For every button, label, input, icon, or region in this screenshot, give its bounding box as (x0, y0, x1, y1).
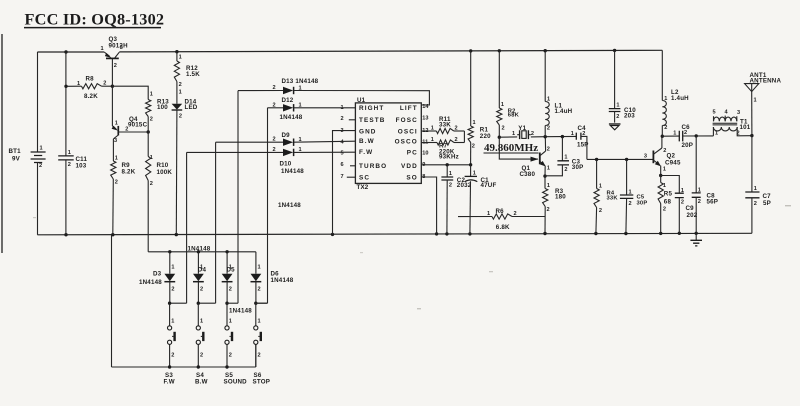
resistor R2 (498, 51, 500, 108)
svg-text:C7: C7 (763, 193, 772, 200)
capacitor C3 (561, 137, 563, 161)
wire (333, 131, 356, 235)
diode D5 (226, 252, 228, 274)
wire (227, 302, 238, 304)
svg-text:6.8K: 6.8K (496, 224, 510, 231)
capacitor C8 (695, 136, 697, 193)
svg-text:D5: D5 (227, 266, 236, 273)
svg-text:2: 2 (114, 63, 117, 69)
svg-text:1: 1 (547, 165, 550, 171)
svg-text:FOSC: FOSC (396, 117, 418, 124)
svg-text:3: 3 (644, 153, 647, 159)
node (168, 365, 171, 368)
resistor R12 (176, 52, 178, 61)
svg-text:203: 203 (624, 113, 635, 120)
svg-text:2: 2 (229, 353, 232, 359)
svg-text:B.W: B.W (195, 378, 208, 385)
svg-text:2: 2 (179, 82, 182, 88)
svg-text:1: 1 (101, 46, 104, 52)
svg-text:C380: C380 (520, 171, 536, 178)
capacitor C2 (446, 165, 448, 177)
svg-text:30P: 30P (572, 164, 584, 171)
svg-text:OSCO: OSCO (395, 139, 418, 146)
svg-text:1: 1 (115, 155, 118, 161)
svg-text:2: 2 (258, 287, 261, 293)
svg-text:R6: R6 (496, 208, 505, 215)
svg-text:1: 1 (179, 55, 182, 61)
wire (267, 108, 269, 303)
svg-text:3: 3 (120, 45, 123, 51)
diode D6 (255, 252, 257, 274)
capacitor C5 (626, 159, 628, 195)
ic U1 TX2 (355, 103, 421, 183)
svg-text:C945: C945 (665, 160, 681, 167)
svg-text:VDD: VDD (401, 163, 418, 170)
wire (499, 137, 538, 159)
resistor R11 (421, 130, 436, 132)
svg-text:1: 1 (179, 90, 182, 96)
node (168, 250, 171, 253)
svg-text:2: 2 (68, 162, 71, 168)
svg-text:93KHz: 93KHz (439, 154, 459, 161)
svg-text:Q2: Q2 (667, 153, 676, 160)
svg-text:2: 2 (103, 81, 106, 87)
svg-text:1: 1 (487, 211, 490, 217)
svg-text:2: 2 (229, 287, 232, 293)
diode D4 (197, 252, 199, 274)
node (544, 135, 547, 138)
wire (421, 177, 436, 234)
node (750, 134, 753, 137)
svg-text:1: 1 (68, 150, 71, 156)
svg-text:BT1: BT1 (9, 148, 22, 155)
svg-text:F.W: F.W (164, 378, 175, 385)
node (64, 85, 67, 88)
svg-text:2: 2 (455, 125, 458, 131)
node (498, 136, 501, 139)
svg-text:2: 2 (502, 126, 505, 132)
svg-text:1: 1 (473, 120, 476, 126)
svg-text:1: 1 (547, 183, 550, 189)
svg-text:1: 1 (564, 155, 567, 161)
svg-text:1: 1 (40, 146, 43, 152)
wire (148, 251, 256, 253)
svg-text:2: 2 (449, 182, 452, 188)
svg-text:100K: 100K (157, 169, 173, 176)
svg-text:1N4148: 1N4148 (281, 168, 304, 175)
wire (119, 50, 662, 52)
svg-text:33K: 33K (439, 121, 451, 128)
svg-text:D12: D12 (282, 97, 294, 104)
wire (37, 51, 104, 53)
svg-text:2: 2 (171, 353, 174, 359)
svg-text:20P: 20P (682, 142, 694, 149)
svg-text:RIGHT: RIGHT (359, 105, 384, 112)
wire (350, 165, 355, 167)
battery BT1 (37, 52, 39, 152)
resistor R1 (470, 51, 472, 126)
svg-text:1: 1 (754, 186, 757, 192)
svg-text:GND: GND (359, 128, 377, 135)
svg-text:SC: SC (359, 174, 370, 181)
svg-text:180: 180 (555, 193, 566, 200)
svg-text:68: 68 (664, 198, 672, 205)
svg-text:101: 101 (740, 124, 751, 131)
svg-text:56P: 56P (707, 199, 719, 206)
capacitor C6 (662, 135, 679, 137)
transistor Q1 (539, 153, 541, 165)
svg-text:R5: R5 (664, 190, 673, 197)
switch S5 (226, 303, 228, 325)
svg-text:47UF: 47UF (481, 182, 497, 189)
svg-text:TURBO: TURBO (359, 163, 387, 170)
svg-text:1: 1 (715, 130, 718, 136)
svg-text:1: 1 (473, 171, 476, 177)
svg-text:8.2K: 8.2K (122, 169, 136, 176)
svg-text:1N4148: 1N4148 (139, 279, 162, 286)
svg-text:100: 100 (157, 104, 168, 111)
svg-text:2: 2 (629, 201, 632, 207)
node (64, 50, 67, 53)
wire (198, 302, 215, 304)
svg-text:1: 1 (449, 171, 452, 177)
node (695, 134, 698, 137)
svg-text:STOP: STOP (253, 378, 271, 385)
svg-text:D3: D3 (153, 271, 162, 278)
svg-text:2: 2 (664, 125, 667, 131)
wire (463, 131, 465, 143)
svg-text:5: 5 (713, 110, 716, 116)
resistor R4 (596, 159, 598, 188)
svg-text:2: 2 (455, 137, 458, 143)
switch S3 (169, 303, 171, 325)
svg-text:FCC ID: OQ8-1302: FCC ID: OQ8-1302 (25, 10, 165, 29)
svg-text:1: 1 (663, 166, 666, 172)
svg-text:2: 2 (616, 114, 619, 120)
resistor R13 (112, 86, 148, 99)
svg-text:1: 1 (115, 121, 118, 127)
svg-text:1: 1 (229, 319, 232, 325)
svg-text:F.W: F.W (359, 149, 373, 156)
svg-text:2: 2 (472, 144, 475, 150)
wire (661, 176, 680, 194)
inductor L2 (661, 50, 663, 100)
svg-text:1: 1 (171, 264, 174, 270)
capacitor C11 (65, 52, 67, 156)
svg-text:13: 13 (422, 116, 428, 122)
svg-text:1: 1 (571, 131, 574, 137)
ground (695, 233, 697, 240)
svg-text:2: 2 (698, 199, 701, 205)
node (785, 205, 791, 206)
svg-text:1: 1 (200, 319, 203, 325)
diode D14 LED (176, 82, 178, 104)
svg-text:2: 2 (39, 163, 42, 169)
svg-text:202: 202 (687, 212, 698, 219)
svg-text:1.4uH: 1.4uH (671, 95, 689, 102)
svg-text:2: 2 (200, 353, 203, 359)
svg-text:220: 220 (480, 133, 491, 140)
svg-text:D4: D4 (198, 266, 207, 273)
svg-text:2: 2 (681, 199, 684, 205)
wire (347, 176, 356, 178)
svg-text:3: 3 (737, 110, 740, 116)
resistor R10 (147, 132, 149, 157)
wire (147, 181, 149, 252)
svg-text:5: 5 (341, 150, 344, 156)
svg-text:1N4148: 1N4148 (278, 202, 301, 209)
svg-text:2: 2 (171, 287, 174, 293)
wire (256, 302, 268, 304)
svg-text:2: 2 (514, 211, 517, 217)
svg-text:2: 2 (754, 201, 757, 207)
wire (112, 366, 256, 368)
svg-text:6: 6 (341, 162, 344, 168)
svg-text:2: 2 (547, 207, 550, 213)
wire (37, 233, 752, 235)
ground (609, 123, 621, 125)
svg-text:5P: 5P (763, 200, 771, 207)
svg-text:D13 1N4148: D13 1N4148 (282, 78, 319, 85)
switch S6 (255, 303, 257, 325)
svg-text:9V: 9V (12, 156, 21, 163)
svg-text:1.4uH: 1.4uH (555, 108, 573, 115)
node (64, 233, 67, 236)
svg-text:1: 1 (754, 97, 757, 103)
svg-text:OSCI: OSCI (398, 128, 418, 135)
svg-text:9012H: 9012H (109, 43, 129, 50)
svg-text:30P: 30P (637, 200, 648, 206)
svg-text:2: 2 (599, 208, 602, 214)
svg-text:2: 2 (258, 353, 261, 359)
wire (256, 302, 268, 304)
svg-text:1: 1 (431, 125, 434, 131)
svg-text:1: 1 (501, 102, 504, 108)
svg-text:PC: PC (407, 150, 418, 157)
svg-text:8.2K: 8.2K (84, 93, 98, 100)
svg-text:TESTB: TESTB (359, 117, 385, 124)
svg-text:LED: LED (185, 104, 198, 111)
node (543, 174, 546, 177)
wire (421, 164, 470, 166)
svg-text:2: 2 (663, 206, 666, 212)
svg-text:2032: 2032 (457, 182, 472, 189)
svg-text:68K: 68K (508, 113, 520, 119)
wire (587, 158, 654, 160)
svg-text:1N4148: 1N4148 (280, 114, 303, 121)
wire (545, 135, 576, 137)
svg-text:2: 2 (115, 180, 118, 186)
svg-text:1: 1 (171, 319, 174, 325)
svg-text:2: 2 (179, 114, 182, 120)
svg-text:1: 1 (258, 319, 261, 325)
wire (170, 302, 187, 304)
svg-text:2: 2 (200, 287, 203, 293)
wire (237, 91, 239, 304)
wire (1, 34, 3, 253)
node (168, 302, 171, 305)
svg-text:2: 2 (150, 117, 153, 123)
wire (186, 152, 188, 303)
diode D3 (169, 252, 171, 274)
svg-text:1: 1 (77, 81, 80, 87)
svg-text:2: 2 (531, 131, 534, 137)
svg-text:LIFT: LIFT (400, 105, 418, 112)
wire (215, 142, 217, 303)
svg-text:1: 1 (431, 137, 434, 143)
svg-text:1N4148: 1N4148 (271, 277, 294, 284)
resistor R8 (66, 85, 82, 87)
svg-text:2: 2 (341, 116, 344, 122)
svg-text:1: 1 (673, 130, 676, 136)
svg-text:1: 1 (512, 131, 515, 137)
svg-text:SOUND: SOUND (224, 378, 248, 385)
svg-text:U1: U1 (357, 97, 366, 104)
svg-text:1.5K: 1.5K (186, 71, 200, 78)
svg-text:2: 2 (150, 181, 153, 187)
svg-text:1: 1 (150, 92, 153, 98)
svg-text:C6: C6 (682, 124, 691, 131)
node (659, 174, 662, 177)
svg-text:2: 2 (547, 125, 550, 131)
svg-text:10: 10 (422, 150, 428, 156)
svg-text:TX2: TX2 (357, 184, 369, 191)
resistor R6 (458, 216, 492, 218)
wire (349, 119, 356, 121)
svg-text:1: 1 (258, 264, 261, 270)
capacitor C1 (470, 165, 472, 177)
svg-text:2: 2 (564, 167, 567, 173)
svg-text:1N4148: 1N4148 (229, 308, 252, 315)
svg-text:103: 103 (76, 162, 87, 169)
capacitor C10 (614, 50, 616, 108)
switch S4 (197, 303, 199, 325)
node (446, 163, 449, 166)
svg-text:R8: R8 (86, 75, 95, 82)
svg-text:B.W: B.W (359, 138, 375, 145)
capacitor C7 (751, 136, 753, 192)
svg-text:7: 7 (341, 174, 344, 180)
svg-text:1: 1 (599, 183, 602, 189)
svg-text:SO: SO (406, 175, 417, 182)
svg-text:1: 1 (616, 103, 619, 109)
svg-text:2: 2 (547, 147, 550, 153)
svg-text:D10: D10 (280, 161, 292, 168)
node (595, 158, 598, 161)
resistor R7 (421, 142, 437, 144)
svg-text:9015C: 9015C (128, 121, 148, 128)
svg-text:D9: D9 (282, 132, 291, 139)
node (147, 130, 150, 133)
resistor R3 (544, 176, 546, 188)
svg-text:33K: 33K (607, 196, 619, 202)
svg-text:49.860MHz: 49.860MHz (484, 142, 538, 154)
inductor L1 (544, 51, 546, 102)
